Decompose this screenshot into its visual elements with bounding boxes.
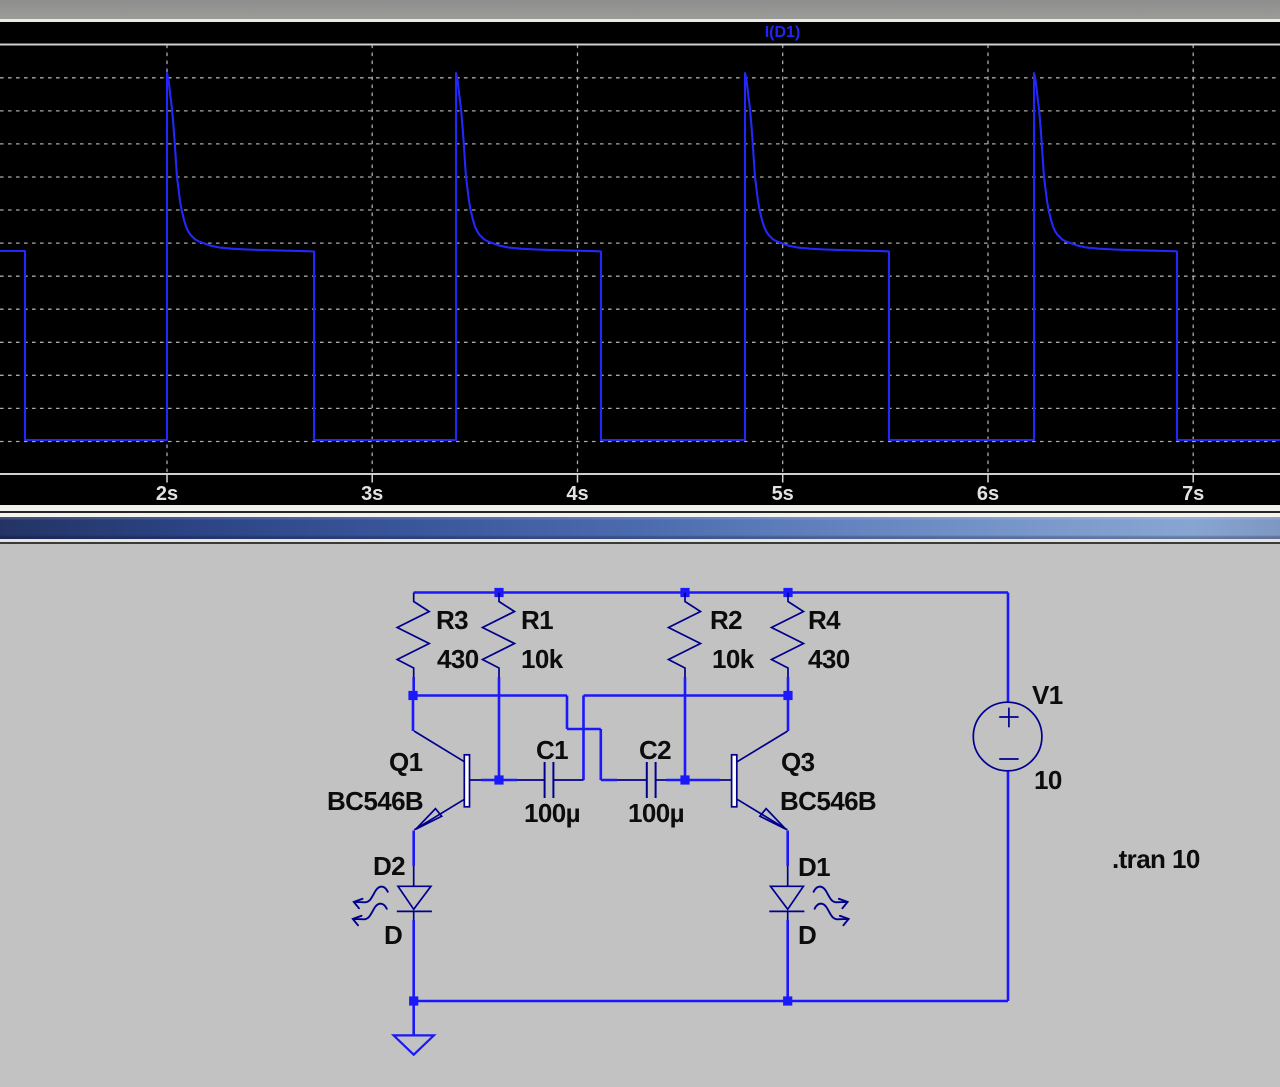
svg-text:2s: 2s [156,483,178,505]
svg-text:6s: 6s [977,483,999,505]
svg-text:4s: 4s [566,483,588,505]
svg-text:10k: 10k [712,644,755,674]
svg-text:Q3: Q3 [781,747,815,777]
svg-text:D1: D1 [798,852,830,882]
svg-text:Q1: Q1 [389,747,423,777]
svg-text:D2: D2 [373,851,405,881]
svg-text:3s: 3s [361,483,383,505]
svg-text:BC546B: BC546B [327,786,423,816]
svg-text:V1: V1 [1032,680,1063,710]
svg-text:100µ: 100µ [628,798,684,828]
svg-text:10: 10 [1034,765,1062,795]
svg-text:100µ: 100µ [524,798,580,828]
svg-text:D: D [798,920,816,950]
svg-text:10k: 10k [521,644,564,674]
svg-text:5s: 5s [772,483,794,505]
svg-text:BC546B: BC546B [780,786,876,816]
svg-text:7s: 7s [1182,483,1204,505]
svg-text:430: 430 [808,644,850,674]
svg-text:R1: R1 [521,605,553,635]
svg-text:C1: C1 [536,735,568,765]
svg-text:.tran 10: .tran 10 [1112,844,1200,874]
svg-text:R3: R3 [436,605,468,635]
svg-text:C2: C2 [639,735,671,765]
svg-text:D: D [384,920,402,950]
svg-text:430: 430 [437,644,479,674]
svg-text:R2: R2 [710,605,742,635]
svg-text:R4: R4 [808,605,841,635]
